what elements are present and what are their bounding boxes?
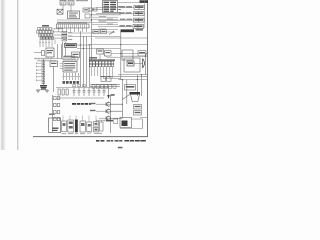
matrix label [89, 57, 97, 59]
node marks right of U2 [118, 6, 121, 13]
wire dip drops [40, 40, 55, 48]
connector P2 box [134, 12, 145, 16]
oscillator X1 box [57, 9, 63, 14]
mid row of boxes [92, 85, 116, 89]
wire E vert x57.3 [56, 44, 58, 59]
connector P3 label [120, 19, 132, 21]
IC X13 cluster [87, 122, 92, 132]
X10 inner [63, 123, 66, 126]
contact pair S3 [54, 111, 60, 114]
wire dip out row1 [52, 28, 63, 30]
wire cap bank rail [62, 75, 80, 77]
electrolytic cap CE1 dark [75, 120, 78, 133]
tick labels under drops [39, 41, 50, 44]
IC U3 label [47, 50, 53, 53]
relay box outline [124, 58, 140, 72]
wire right x137.3 [136, 75, 138, 96]
caps tiny text below [58, 97, 104, 100]
wire right bottom y117.6 [140, 117, 147, 119]
diode D6 [42, 78, 45, 80]
connector P2 text [135, 13, 144, 15]
dip switch SW2 row [40, 37, 54, 39]
capacitor C16 [103, 88, 106, 96]
wire center bus x83.3 [82, 36, 84, 87]
N1 label [126, 86, 135, 88]
wire rail y48.4 [77, 47, 121, 49]
wire main vertical bus x91.5 [91, 0, 93, 60]
U6 label [73, 54, 79, 55]
crystal Y1 hatched box [60, 1, 66, 6]
wire ladder vertical [42, 59, 44, 86]
wire ladder bottom [37, 89, 49, 91]
wire matrix out 1 [100, 75, 147, 77]
diode D3 [42, 68, 45, 70]
battery label [53, 128, 59, 132]
wire right x122.3 [121, 80, 123, 118]
subtitle text [136, 29, 144, 31]
arrow mark [109, 32, 114, 35]
IC X12 cluster [80, 121, 86, 132]
U7 text rows [64, 63, 75, 71]
option box B1 [62, 32, 67, 35]
wire G vert x62.5 [62, 42, 64, 57]
small dbox right [138, 51, 146, 57]
X11 inner [69, 122, 73, 129]
wire right rail y56.2 [121, 55, 147, 57]
wire top-left rail B [57, 21, 92, 23]
capacitor C13 [88, 88, 91, 96]
capacitor C1 box [85, 14, 90, 18]
relay coil dark box [127, 61, 134, 66]
wire mid bus stack [92, 17, 118, 32]
wire arrow vert x108.5 [108, 88, 110, 95]
M1 label [94, 31, 98, 32]
node cluster center [97, 49, 112, 56]
wire transistor row 2 [96, 110, 110, 112]
IC U3 box [46, 48, 54, 57]
wire center bus row [77, 44, 92, 46]
resistor R12 [66, 89, 68, 95]
contact pair S2 [54, 104, 60, 107]
resistor row dark boxes [63, 81, 80, 84]
wire right rail y74.6 [118, 74, 147, 76]
crystal Y2 hatched box [68, 1, 74, 6]
schematic bottom border [33, 135, 148, 138]
wire crystal leads [63, 5, 71, 12]
cluster R network [101, 77, 111, 82]
terminal list box U2 [103, 1, 118, 13]
wire matrix fan [92, 67, 113, 78]
wire right rail y79.6 [118, 79, 147, 81]
component label row under bottom ICs [62, 133, 103, 134]
capacitor bank C rows [64, 73, 79, 80]
wire mid rail y84.3 [90, 83, 120, 85]
IC U1 label [69, 13, 78, 18]
caps row small boxes above [73, 85, 85, 87]
page left scan shadow [0, 0, 6, 150]
IC X11 cluster [68, 120, 74, 132]
wires: main grid [34, 3, 147, 129]
capacitor C15 [98, 88, 101, 96]
wire right vertical x120.8 [120, 31, 122, 80]
connector J1 labels above [57, 22, 87, 25]
KEYBOARD title text [121, 29, 135, 32]
box V2 [134, 111, 142, 116]
wire long rail y38 [95, 37, 147, 39]
contact pair S1 [54, 97, 60, 100]
transformer T1 dark blob [40, 85, 47, 89]
wire ladder stubs [37, 63, 43, 80]
wire top text-block feed [92, 9, 103, 11]
resistor network RN1 row [38, 28, 52, 30]
transistor Q2 [106, 102, 122, 107]
hatch marks on crystals [61, 1, 73, 5]
resistor R11 [62, 89, 64, 95]
small box M2 [101, 30, 107, 34]
bus net labels [99, 16, 113, 29]
E rail ticks [36, 57, 51, 59]
small box K2 [94, 8, 98, 11]
schematic right border [146, 0, 149, 137]
wire contacts x52.3 [51, 95, 53, 132]
wire G vert x65.5 [65, 42, 67, 57]
LCD CONTROLLER label [72, 103, 91, 105]
reset circuit box R1 [83, 8, 89, 12]
IC U1 box [68, 11, 80, 19]
power label P0 [140, 0, 149, 3]
wire E left arrow [34, 51, 42, 53]
capacitor C11 [78, 88, 81, 96]
arrow head down [107, 95, 110, 99]
connector J1 long bar [57, 24, 90, 28]
X13 inner [88, 124, 91, 127]
V2 label [135, 112, 141, 113]
small text above battery [49, 114, 55, 115]
connector J2 hatched bar [63, 57, 78, 60]
wire top-left rail A [57, 19, 92, 21]
wire dip out row4 [55, 37, 63, 39]
resistor R10 [58, 89, 60, 95]
wire bottom tick row [96, 120, 106, 122]
J2 label above [64, 55, 75, 58]
RAM label [51, 63, 57, 64]
note text box [114, 119, 118, 124]
wire right rail y53.4 [121, 52, 147, 54]
connector P4 box [133, 25, 144, 29]
dip switch SW1 row [39, 34, 53, 36]
IC X14 stacked boxes [94, 122, 104, 132]
caption: Fig. 7.10 Circuit Diagram [96, 140, 146, 142]
M2 label [102, 31, 106, 32]
junction dots [80, 14, 146, 119]
box labels [63, 32, 72, 40]
connector P3 box [134, 18, 145, 22]
buzzer cup BZ1 [130, 92, 141, 102]
IC U7 box [63, 62, 77, 73]
wire center bus x80.3 [79, 31, 81, 87]
battery box BT1 [49, 118, 61, 133]
matrix U8 grid row1 [90, 61, 114, 64]
box N1 [125, 85, 136, 91]
dark IC U5 [65, 43, 77, 47]
connector P4 label [120, 25, 132, 27]
wire F vert x53.7 [53, 67, 55, 93]
wire right x126.8 [126, 80, 128, 104]
arrow side text [111, 94, 115, 96]
wire connector row 1 [96, 7, 134, 9]
wire center bus x86.3 [85, 36, 87, 87]
label SW text [42, 25, 49, 27]
wire connector column link [144, 0, 146, 28]
relay coil label [128, 62, 133, 64]
connector P4 text [134, 26, 143, 28]
vertical bus wires [52, 0, 145, 133]
note text [106, 120, 113, 122]
wire transistor row 3 [99, 117, 110, 119]
wire caps rail [56, 87, 109, 89]
wire keyboard feed 2 [69, 35, 121, 37]
wire hang leads [63, 116, 96, 123]
wire keyboard feed [69, 32, 93, 34]
wire bottom-right top [132, 118, 143, 120]
matrix U8 grid row2 [90, 64, 114, 67]
connector J1 pin ticks [59, 24, 87, 28]
wire bottom x110.3 [109, 95, 111, 133]
wire connector row 0 [118, 2, 140, 4]
RAM box U4 [50, 61, 58, 67]
wire E vert x61.3 [60, 44, 62, 59]
wire connector row 3 [98, 19, 134, 21]
X14 inner [95, 123, 98, 131]
wire speaker link [134, 63, 143, 65]
wire E rail [34, 58, 63, 60]
IC X10 cluster [62, 121, 67, 132]
wire right x141.3 [140, 75, 142, 96]
ground GND2 [45, 91, 49, 93]
E rail tiny text [37, 59, 56, 62]
wire top mid rail [92, 14, 121, 16]
wire transistor row 1 [96, 103, 110, 105]
ground GND1 [36, 91, 40, 93]
cluster labels [98, 50, 111, 53]
connector P3 text [135, 19, 144, 21]
diode D2 [42, 64, 45, 66]
option box B2 [62, 35, 67, 38]
wire dip out row3 [52, 34, 63, 36]
terminal list text rows [104, 2, 117, 12]
X12 inner [81, 123, 85, 126]
display frame box [122, 50, 133, 60]
wire buzzer diag [122, 95, 129, 100]
transistor Q1 [42, 51, 45, 56]
wire dip out row2 [52, 31, 63, 33]
reset box label [84, 9, 88, 10]
transistor Q3 [106, 109, 122, 114]
V1 label [135, 106, 141, 107]
small box K1 [89, 8, 93, 11]
wire bottom-right link [120, 128, 142, 130]
resistor network RN2 row [37, 31, 54, 33]
ladder stub end ticks [36, 62, 38, 81]
page number [118, 147, 123, 149]
diode D7 [42, 81, 45, 83]
box U6 [72, 52, 80, 58]
U5 label [66, 44, 76, 46]
contact pair S4 [54, 118, 60, 121]
diode D4 [42, 71, 45, 73]
connector P1 box [134, 5, 145, 9]
dbox label [139, 52, 145, 53]
diode D1 [42, 61, 45, 63]
box V1 [134, 105, 142, 110]
option box B3 [62, 38, 67, 41]
dark box W1 [122, 121, 128, 127]
wire J1 drops [59, 28, 87, 32]
connector P2 label [119, 12, 132, 14]
wire right x145.3 [144, 53, 146, 74]
matrix U8 top bar [89, 60, 115, 61]
wire cluster link [100, 52, 121, 60]
wire connector row 4 [98, 26, 133, 28]
wire long rail y44.6 [88, 44, 147, 46]
wire matrix out 2 [103, 77, 121, 79]
capacitor C12 [83, 88, 86, 96]
box W outline [120, 118, 132, 128]
capacitor C10 [73, 88, 76, 96]
connector P1 label [120, 6, 133, 8]
Q labels [90, 103, 96, 111]
speaker LS1 [143, 59, 145, 69]
wire center bus x89.3 [88, 44, 90, 87]
wire connector row 2 [96, 13, 134, 15]
diode D5 [42, 75, 45, 77]
transistor Q4 [106, 116, 122, 121]
wire bottom x142.3 [141, 119, 143, 129]
wire mid rail y86.3 [90, 85, 120, 87]
capacitor C14 [93, 88, 96, 96]
small box M1 [93, 30, 99, 34]
tiny top labels [60, 0, 89, 1]
U7 pins left [60, 64, 64, 69]
page gutter line [17, 0, 18, 150]
connector P1 text [135, 6, 144, 8]
